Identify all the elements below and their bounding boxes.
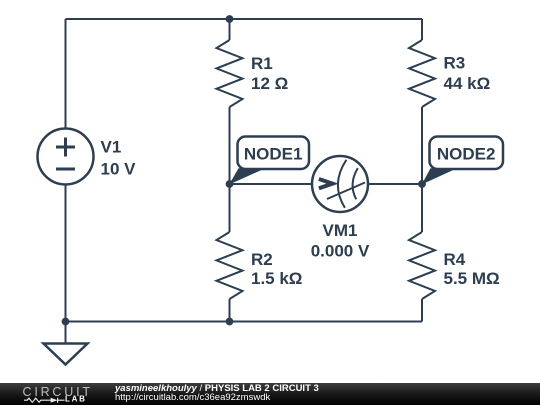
voltmeter VM1 xyxy=(312,156,368,212)
svg-text:VM1: VM1 xyxy=(323,221,358,240)
resistor R1 xyxy=(217,40,243,107)
wire: R4 bottom stub to bottom net xyxy=(421,299,423,322)
wire: R3 bottom to NODE2 junction xyxy=(421,107,423,184)
wire: V1 negative terminal down to ground node xyxy=(65,185,67,344)
svg-text:44 kΩ: 44 kΩ xyxy=(444,74,491,93)
wire: horizontal net NODE1 through VM1 to NODE2 xyxy=(230,183,423,185)
svg-text:R1: R1 xyxy=(251,54,273,73)
wire: R2 bottom stub to bottom net xyxy=(229,299,231,322)
wire: bottom horizontal net (ground net) xyxy=(66,321,423,323)
svg-text:NODE2: NODE2 xyxy=(437,145,496,164)
CircuitLab logo xyxy=(0,383,110,405)
svg-text:1.5 kΩ: 1.5 kΩ xyxy=(251,269,302,288)
svg-text:R4: R4 xyxy=(444,250,466,269)
junction dot: top net at R1 branch xyxy=(226,15,234,23)
svg-text:V1: V1 xyxy=(101,138,122,157)
wire: NODE1 junction down to R2 xyxy=(229,184,231,232)
node NODE2 callout xyxy=(422,137,503,185)
junction dot: ground node xyxy=(62,318,70,326)
svg-text:R3: R3 xyxy=(444,54,466,73)
svg-text:R2: R2 xyxy=(251,250,273,269)
resistor R2 xyxy=(217,232,243,299)
footer attribution bar xyxy=(0,383,540,405)
svg-text:10 V: 10 V xyxy=(101,160,137,179)
svg-text:NODE1: NODE1 xyxy=(244,145,303,164)
node NODE1 callout xyxy=(229,137,309,185)
wire: right branch top stub into R3 xyxy=(421,19,423,40)
resistor R4 xyxy=(409,232,435,299)
resistor R3 xyxy=(409,40,435,107)
footer attribution text xyxy=(115,384,319,403)
svg-text:0.000 V: 0.000 V xyxy=(311,242,370,261)
ground symbol xyxy=(44,322,88,365)
svg-text:12 Ω: 12 Ω xyxy=(251,74,288,93)
wire: left vertical from top wire to V1 positive terminal xyxy=(65,19,67,129)
wire: R1 bottom to NODE1 junction xyxy=(229,107,231,184)
wire: middle branch top stub into R1 xyxy=(229,19,231,40)
junction dot: NODE2 xyxy=(418,180,426,188)
junction dot: NODE1 xyxy=(226,180,234,188)
voltage source V1 xyxy=(38,129,94,185)
svg-text:5.5 MΩ: 5.5 MΩ xyxy=(444,269,500,288)
wire: NODE2 junction down to R4 xyxy=(421,184,423,232)
junction dot: bottom net at R2 branch xyxy=(226,318,234,326)
svg-text:LAB: LAB xyxy=(65,394,87,403)
wire: top horizontal net from V1+ to R1 and R3 xyxy=(66,18,423,20)
